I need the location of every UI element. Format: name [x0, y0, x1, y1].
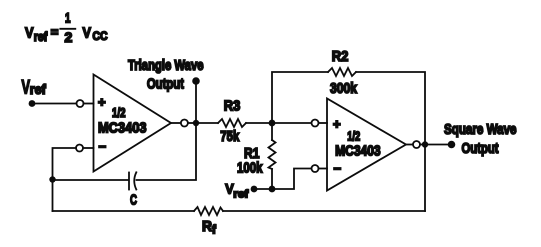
resistor R2 300k: [328, 48, 358, 97]
wire: junction B up to R2 top rail: [272, 72, 328, 123]
wire: U2 apex to output circle: [406, 144, 413, 146]
wire: bottom rail left segment: [53, 210, 195, 212]
resistor R3 75k: [196, 98, 272, 146]
svg-text:=: =: [51, 24, 59, 39]
wire: R2 to U2 output node: [356, 72, 425, 145]
wire: output circle to junction: [420, 144, 425, 146]
svg-text:Triangle Wave: Triangle Wave: [128, 57, 204, 74]
svg-text:MC3403: MC3403: [335, 144, 381, 160]
wire: junction C to U2 - input circle: [272, 169, 311, 190]
label: formula Vref = 1/2 Vcc: [25, 10, 108, 45]
wire: circle to U1 + pin: [84, 103, 94, 105]
node: Vref bottom terminal (filled dot): [251, 186, 258, 193]
svg-text:100k: 100k: [237, 160, 263, 177]
op-amp U2 1/2 MC3403: [327, 99, 406, 191]
wire: Vref terminal to junction C: [254, 188, 272, 190]
svg-text:+: +: [333, 117, 341, 132]
svg-text:R3: R3: [224, 98, 241, 115]
node: U1 output junction: [193, 120, 199, 126]
svg-text:Output: Output: [462, 140, 499, 157]
node: junction B (R3 / R2 / R1 / U2 +): [269, 120, 276, 127]
wire: U1 apex to output circle: [171, 122, 181, 124]
label: Vref (left input): [22, 77, 47, 99]
resistor Rf: [194, 207, 223, 237]
node: junction A (feedback / bottom rail): [49, 176, 55, 182]
svg-text:+: +: [98, 95, 106, 110]
svg-text:MC3403: MC3403: [98, 120, 147, 137]
svg-text:1/2: 1/2: [112, 106, 126, 120]
wire: junction A to capacitor left plate: [53, 179, 129, 181]
wire: U1 - input left then down to junction A: [53, 148, 77, 180]
svg-text:2: 2: [65, 29, 73, 45]
wire: U1 - input circle to pin: [83, 147, 94, 149]
svg-text:V: V: [22, 77, 31, 99]
capacitor C: [129, 172, 137, 208]
svg-text:ref: ref: [34, 30, 48, 44]
svg-text:R: R: [202, 218, 212, 235]
svg-text:ref: ref: [233, 189, 248, 201]
wire: capacitor right plate to output node vertical: [137, 123, 197, 180]
svg-text:Square Wave: Square Wave: [444, 121, 517, 138]
svg-text:V: V: [25, 24, 34, 41]
node: open circle at U1 output: [181, 120, 188, 127]
node: open circle at U2 output: [413, 141, 420, 148]
label: Square Wave Output: [444, 121, 517, 157]
node: Vref input terminal (filled dot): [29, 100, 36, 107]
svg-text:300k: 300k: [330, 80, 358, 97]
label: Triangle Wave Output: [128, 57, 204, 93]
wire: output junction to Square Wave terminal: [425, 144, 448, 146]
svg-text:Output: Output: [147, 76, 184, 93]
wire: up to Triangle Wave Output terminal: [195, 82, 197, 123]
wire: circle to U2 + pin: [319, 122, 328, 124]
node: open circle at U2 - input: [312, 165, 319, 172]
wire: junction A down to bottom rail: [52, 180, 54, 212]
resistor R1 100k: [237, 123, 276, 189]
wire: bottom rail right segment: [223, 210, 425, 212]
svg-text:f: f: [212, 225, 216, 237]
svg-text:75k: 75k: [220, 128, 239, 145]
svg-text:V: V: [83, 24, 92, 41]
label: Vref (bottom): [225, 181, 248, 201]
svg-text:−: −: [334, 161, 342, 176]
wire: output junction down to bottom rail: [424, 145, 426, 212]
wire: circle to U2 - pin: [319, 168, 328, 170]
node: Triangle Wave Output terminal (filled dot): [192, 77, 200, 85]
node: U2 output junction: [422, 141, 428, 147]
node: open circle at U1 + input: [77, 100, 84, 107]
wire: output circle to junction: [188, 122, 196, 124]
node: Square Wave Output terminal (filled dot): [448, 141, 456, 149]
node: open circle at U1 - input: [76, 145, 83, 152]
svg-text:1: 1: [65, 10, 71, 26]
svg-text:ref: ref: [30, 82, 46, 97]
svg-text:R2: R2: [332, 48, 349, 65]
svg-text:−: −: [99, 139, 107, 154]
node: junction C (R1 bottom): [269, 186, 276, 193]
svg-text:CC: CC: [93, 31, 108, 43]
svg-text:1/2: 1/2: [347, 129, 360, 143]
svg-text:C: C: [130, 191, 137, 208]
wire: Vref terminal to U1 + input circle: [32, 103, 76, 105]
node: open circle at U2 + input: [312, 120, 319, 127]
op-amp U1 1/2 MC3403: [94, 75, 172, 172]
wire: junction B to U2 + input circle: [272, 122, 311, 124]
